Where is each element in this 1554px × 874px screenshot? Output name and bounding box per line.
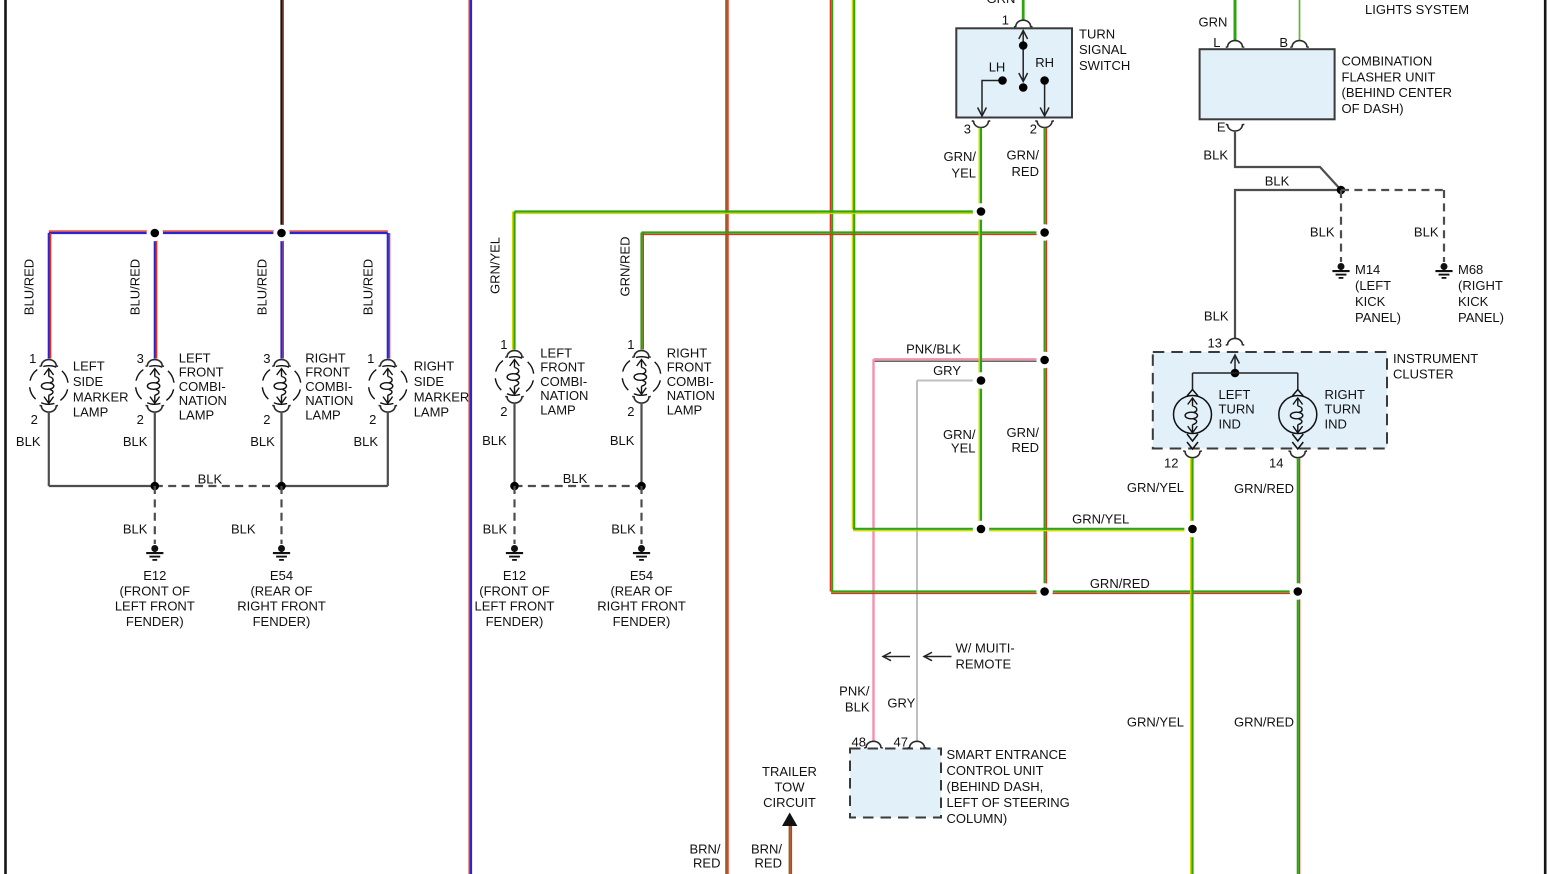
wire GRY horizontal [917, 380, 981, 382]
svg-text:LH: LH [989, 60, 1006, 75]
svg-text:BLK: BLK [1204, 309, 1229, 324]
arrow left on PNK/BLK wire [883, 652, 910, 660]
svg-text:BLU/RED: BLU/RED [128, 259, 143, 315]
svg-text:BLK: BLK [16, 434, 41, 449]
wire BLK from lamp L5 pin 2 [513, 403, 515, 487]
svg-text:2: 2 [627, 404, 634, 419]
wire GRY vertical to SECU pin 47 [916, 381, 918, 742]
wire GRN/RED horizontal to switch pin2 wire [642, 233, 1045, 235]
lamp L1 LEFT SIDE MARKER LAMP [26, 360, 72, 412]
svg-text:1: 1 [1002, 13, 1009, 28]
switch interior arrow up to pin 1 [1019, 31, 1028, 40]
svg-text:RH: RH [1035, 55, 1054, 70]
junction dot BLK grounds [1337, 186, 1346, 195]
right page border wire [1544, 0, 1547, 874]
cluster pin13 interior line [1234, 356, 1236, 373]
svg-text:2: 2 [31, 412, 38, 427]
wire BLK from lamp 4 pin 2 [387, 412, 389, 487]
wire BLK dashed bus mid [515, 485, 642, 487]
wire BLK from lamp 1 pin 2 [48, 412, 50, 487]
wire GRN/RED feed vertical from top [830, 0, 832, 592]
svg-text:GRN/YEL: GRN/YEL [488, 237, 503, 294]
svg-text:48: 48 [852, 735, 866, 750]
cluster wire to left bulb [1192, 373, 1194, 390]
junction dot BLU/RED bus at lamp 2 drop [147, 225, 163, 241]
wire BLK from flasher pin E [1235, 132, 1341, 190]
wire GRN to turn signal switch pin 1 [1022, 0, 1025, 20]
svg-text:2: 2 [369, 412, 376, 427]
svg-text:B: B [1279, 35, 1288, 50]
svg-text:LIGHTS SYSTEM: LIGHTS SYSTEM [1365, 2, 1469, 17]
switch interior arrow down [1019, 73, 1028, 82]
switch RH arrow to pin 2 [1040, 108, 1049, 117]
connector pin 47 SECU [908, 741, 927, 748]
svg-text:GRN: GRN [1199, 15, 1228, 30]
svg-text:12: 12 [1164, 456, 1178, 471]
wire BLK from junction to instrument cluster pin 13 [1235, 190, 1341, 339]
arrow to trailer tow circuit [782, 813, 797, 827]
junction dot GRY on GRN/YEL wire [973, 372, 989, 388]
svg-text:BLK: BLK [1203, 148, 1228, 163]
wire GRN to flasher pin L [1234, 0, 1237, 41]
wire BLK dashed down to M14 [1340, 190, 1342, 262]
wire GRN/YEL feed vertical from top [852, 0, 854, 529]
svg-text:BLU/RED: BLU/RED [22, 259, 37, 315]
junction dot BLK bus right [277, 482, 286, 491]
lamp L2 LEFT FRONT COMBINATION LAMP [132, 360, 178, 412]
wire GRN/RED horizontal to cluster pin14 wire [831, 592, 1298, 594]
svg-text:1: 1 [627, 337, 634, 352]
svg-text:14: 14 [1269, 456, 1283, 471]
svg-text:1: 1 [367, 351, 374, 366]
wire BLK solid bus left [49, 485, 155, 487]
wire GRN thin to flasher pin B [1299, 0, 1301, 41]
wire BLK from lamp 3 pin 2 [280, 412, 282, 487]
left page border wire [4, 0, 7, 874]
wire BLK/RED feed from top to side marker bus [282, 0, 284, 233]
wire BLK dashed bus middle [155, 485, 282, 487]
svg-text:BLK: BLK [198, 472, 223, 487]
svg-text:GRN/RED: GRN/RED [1234, 481, 1294, 496]
wire GRN/RED from cluster pin 14 down [1298, 458, 1300, 874]
junction dot GRN/RED at cluster wire [1290, 583, 1306, 599]
svg-text:GRY: GRY [933, 363, 961, 378]
wire BLK dashed down to M68 [1443, 190, 1445, 262]
svg-text:BLK: BLK [250, 434, 275, 449]
wire GRN/RED drop to right front comb lamp [642, 233, 644, 350]
svg-text:47: 47 [894, 735, 908, 750]
svg-text:BLK: BLK [610, 433, 635, 448]
svg-text:2: 2 [500, 404, 507, 419]
svg-text:2: 2 [1030, 122, 1037, 137]
smart entrance control unit box (dashed) [850, 749, 941, 818]
wire BLK dashed to ground E12 (mid) [513, 486, 515, 544]
lamp L4 RIGHT SIDE MARKER LAMP [365, 360, 411, 412]
connector pin 12 cluster [1183, 451, 1202, 458]
junction dot GRN/YEL at y211 [973, 203, 989, 219]
wire PNK/BLK vertical to SECU pin 48 [872, 359, 874, 741]
svg-text:BLK: BLK [611, 522, 636, 537]
wire BLK dashed to M68 branch [1341, 189, 1444, 191]
ground M68 [1435, 263, 1452, 278]
svg-text:GRN/YEL: GRN/YEL [1127, 715, 1184, 730]
svg-text:1: 1 [500, 337, 507, 352]
ground E12 (left section) [146, 545, 163, 560]
svg-text:GRY: GRY [887, 696, 915, 711]
svg-text:E: E [1217, 120, 1226, 135]
wire BLK solid bus right [282, 485, 388, 487]
svg-text:3: 3 [263, 351, 270, 366]
bulb LEFT TURN IND [1174, 390, 1212, 450]
svg-text:BRN/RED: BRN/RED [689, 842, 720, 871]
junction dot BLK mid left [510, 482, 519, 491]
svg-text:BLK: BLK [1414, 225, 1439, 240]
switch RH contact dot [1040, 76, 1049, 85]
svg-text:BLK: BLK [123, 434, 148, 449]
lamp L6 RIGHT FRONT COMBINATION LAMP (mid) [619, 351, 665, 403]
wire BLU/RED horizontal bus [49, 231, 388, 233]
svg-text:2: 2 [137, 412, 144, 427]
junction dot GRN/YEL switch wire end [973, 521, 989, 537]
junction dot GRN/RED switch wire end [1036, 583, 1052, 599]
svg-text:GRN/RED: GRN/RED [1007, 148, 1040, 179]
svg-text:BRN/RED: BRN/RED [751, 842, 782, 871]
wire GRN/YEL from switch pin 3 down [979, 128, 981, 529]
junction dot BLK mid right [637, 482, 646, 491]
svg-text:BLK: BLK [1265, 174, 1290, 189]
svg-text:BLK: BLK [231, 522, 256, 537]
switch RH contact wire [1044, 81, 1046, 116]
switch LH arrow to pin 3 [978, 108, 987, 117]
wire BLU/RED drop to lamp 3 [282, 233, 284, 359]
lamp L3 RIGHT FRONT COMBINATION LAMP [259, 360, 305, 412]
svg-text:GRN/RED: GRN/RED [618, 237, 633, 297]
svg-text:1: 1 [29, 351, 36, 366]
combination flasher unit box U1 [1200, 49, 1335, 119]
wire GRN/RED from switch pin 2 down [1045, 128, 1047, 592]
cluster arrow up to pin 13 [1231, 355, 1240, 364]
connector pin 1 turn signal switch [1014, 20, 1033, 27]
junction dot cluster interior [1231, 369, 1240, 378]
connector pin B flasher [1290, 41, 1309, 48]
wire GRN/YEL from cluster pin 12 down [1191, 458, 1193, 874]
svg-text:BLK: BLK [482, 433, 507, 448]
junction dot GRN/RED at y232 [1036, 224, 1052, 240]
ground E54 (left section) [273, 545, 290, 560]
svg-text:BLK: BLK [354, 434, 379, 449]
svg-text:W/ MUITI-REMOTE: W/ MUITI-REMOTE [956, 641, 1015, 672]
instrument cluster box (dashed) [1153, 352, 1387, 449]
arrow left on GRY wire [924, 652, 952, 660]
svg-text:13: 13 [1208, 336, 1222, 351]
connector pin E flasher [1226, 124, 1245, 131]
connector pin 3 switch [972, 121, 991, 128]
svg-text:BLK: BLK [563, 471, 588, 486]
junction dot GRN/YEL at cluster wire [1184, 521, 1200, 537]
wire BRN/RED trailer tow from bottom [790, 826, 792, 874]
wire GRN/YEL drop to left front comb lamp [513, 212, 515, 350]
svg-text:GRN/YEL: GRN/YEL [1072, 512, 1129, 527]
wire BLU/RED drop to lamp 2 [155, 233, 157, 359]
svg-text:BLK: BLK [123, 522, 148, 537]
junction dot BLU/RED bus at feed [273, 225, 289, 241]
wire PNK/BLK horizontal [874, 359, 1045, 361]
wire BLK dashed to ground E54 (mid) [640, 486, 642, 544]
svg-text:GRN/RED: GRN/RED [1090, 576, 1150, 591]
svg-text:BLK: BLK [1310, 225, 1335, 240]
switch LH contact wire [982, 81, 1003, 116]
svg-text:BLU/RED: BLU/RED [254, 259, 269, 315]
svg-text:BLK: BLK [483, 522, 508, 537]
svg-text:3: 3 [964, 122, 971, 137]
svg-text:GRN/YEL: GRN/YEL [1127, 480, 1184, 495]
svg-text:GRN/RED: GRN/RED [1234, 715, 1294, 730]
bulb RIGHT TURN IND [1279, 390, 1317, 450]
junction dot PNK/BLK on GRN/RED wire [1036, 352, 1052, 368]
svg-text:L: L [1213, 35, 1220, 50]
switch interior common line [1022, 31, 1024, 81]
svg-text:GRN: GRN [987, 0, 1016, 6]
wire BLK dashed to ground E54 [280, 486, 282, 544]
svg-text:2: 2 [263, 412, 270, 427]
ground E12 (mid section) [506, 545, 523, 560]
switch interior dot upper [1019, 41, 1028, 50]
turn signal switch box S1 [956, 28, 1072, 117]
cluster wire to right bulb [1297, 373, 1299, 390]
switch interior dot lower [1019, 83, 1028, 92]
connector pin 14 cluster [1289, 451, 1308, 458]
wire BLU/RED vertical full height [469, 0, 471, 874]
wire GRN/YEL horizontal to cluster pin12 wire [853, 529, 1192, 531]
connector pin 48 SECU [864, 741, 883, 748]
ground E54 (mid section) [633, 545, 650, 560]
connector pin 2 switch [1035, 121, 1054, 128]
cluster interior horizontal wire [1193, 372, 1298, 374]
lamp L5 LEFT FRONT COMBINATION LAMP (mid) [492, 351, 538, 403]
wire BLK from lamp 2 pin 2 [154, 412, 156, 487]
switch LH contact dot [998, 76, 1007, 85]
connector pin 13 cluster [1226, 338, 1245, 345]
wire BLK from lamp L6 pin 2 [640, 403, 642, 487]
ground M14 [1332, 263, 1349, 278]
svg-text:3: 3 [137, 351, 144, 366]
junction dot BLK bus left [151, 482, 160, 491]
svg-text:GRN/RED: GRN/RED [1007, 425, 1040, 455]
wire BLU/RED drop to lamp 4 [388, 233, 390, 359]
wire BRN/RED vertical full height [726, 0, 728, 874]
wire BLK dashed to ground E12 [154, 486, 156, 544]
connector pin L flasher [1226, 41, 1245, 48]
wire GRN/YEL horizontal to switch pin3 wire [515, 212, 982, 214]
svg-text:BLU/RED: BLU/RED [361, 259, 376, 315]
svg-text:PNK/BLK: PNK/BLK [906, 342, 961, 357]
wire BLU/RED drop to lamp 1 [49, 233, 51, 359]
